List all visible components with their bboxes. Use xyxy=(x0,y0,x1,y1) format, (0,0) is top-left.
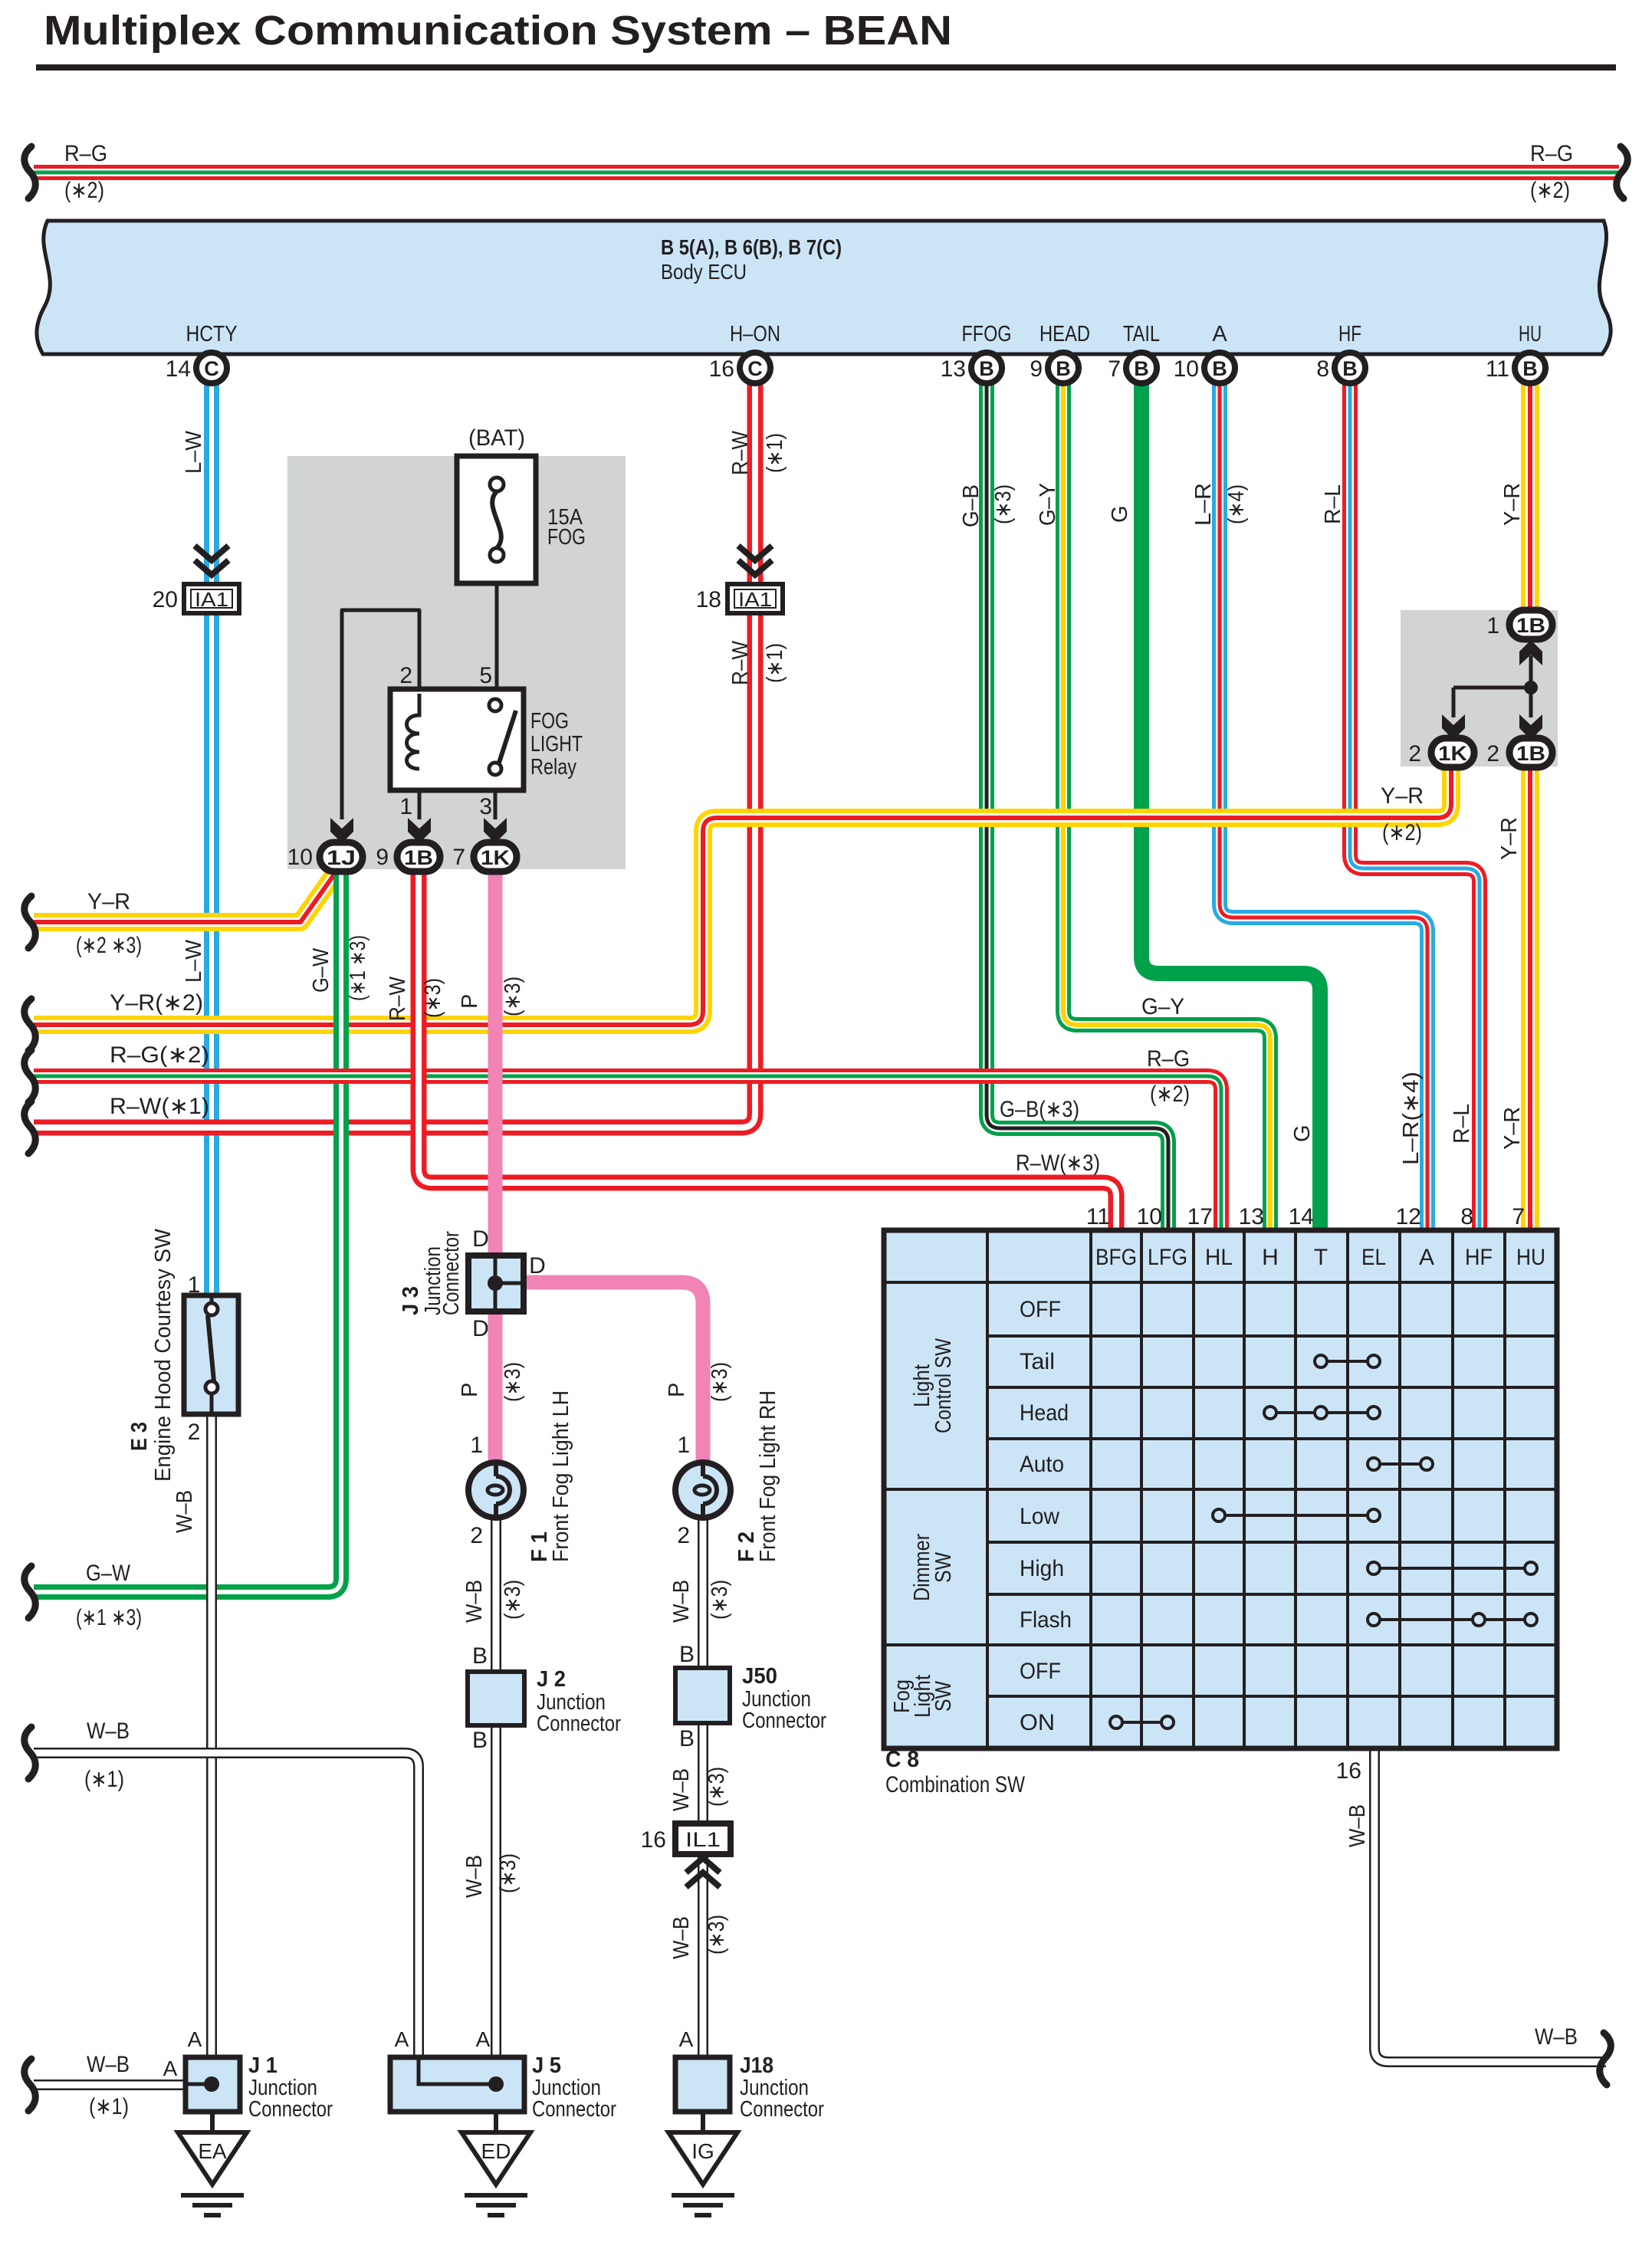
arrow into connector 1B pin 1 xyxy=(1519,640,1542,665)
svg-text:R–W(∗3): R–W(∗3) xyxy=(1016,1151,1100,1176)
svg-text:SW: SW xyxy=(931,1680,956,1712)
svg-text:3: 3 xyxy=(479,794,492,819)
svg-text:16: 16 xyxy=(1336,1758,1361,1784)
svg-text:A: A xyxy=(395,2027,409,2051)
svg-text:W–B: W–B xyxy=(1345,1804,1370,1847)
svg-text:H–ON: H–ON xyxy=(730,322,780,346)
svg-text:(∗1 ∗3): (∗1 ∗3) xyxy=(76,1605,142,1630)
ECU pin 8 HF xyxy=(1316,353,1365,383)
connector brace Y-R (*2 *3) xyxy=(25,896,36,948)
connector brace W-B (*1) lower xyxy=(25,2059,36,2111)
svg-text:Y–R: Y–R xyxy=(87,889,130,914)
svg-text:G: G xyxy=(1290,1124,1315,1142)
svg-text:16: 16 xyxy=(709,356,734,382)
svg-text:Multiplex Communication System: Multiplex Communication System – BEAN xyxy=(44,8,952,54)
svg-text:(∗3): (∗3) xyxy=(708,1580,732,1620)
wire Y-R from connector 1B pin 2 to C8 pin 7 xyxy=(1521,766,1539,1233)
svg-text:(∗2): (∗2) xyxy=(1150,1082,1190,1107)
svg-text:A: A xyxy=(476,2027,491,2051)
arrow into IA1 pin 20 xyxy=(195,546,228,575)
svg-text:(∗1): (∗1) xyxy=(89,2094,129,2119)
svg-text:J50: J50 xyxy=(742,1664,777,1689)
svg-text:R–W(∗1): R–W(∗1) xyxy=(110,1094,209,1119)
svg-text:(∗3): (∗3) xyxy=(704,1915,729,1955)
svg-text:HEAD: HEAD xyxy=(1039,322,1090,346)
connector IA1 pin 18 xyxy=(696,584,783,613)
svg-text:Flash: Flash xyxy=(1020,1607,1072,1633)
svg-text:Y–R(∗2): Y–R(∗2) xyxy=(110,990,203,1016)
wire W-B (*1) from left to J1 xyxy=(34,2080,212,2090)
svg-text:R–G(∗2): R–G(∗2) xyxy=(110,1042,209,1068)
svg-text:A: A xyxy=(188,2027,202,2051)
wire P from relay connector 1K through J3 to F1 xyxy=(488,868,503,1464)
svg-text:18: 18 xyxy=(696,587,721,612)
svg-text:OFF: OFF xyxy=(1020,1659,1061,1684)
svg-text:(∗4): (∗4) xyxy=(1224,484,1249,524)
svg-text:7: 7 xyxy=(1108,356,1121,382)
svg-text:B: B xyxy=(472,1643,488,1669)
ECU pin 9 HEAD xyxy=(1030,353,1079,383)
svg-text:Y–R: Y–R xyxy=(1500,1107,1525,1150)
svg-text:11: 11 xyxy=(1486,356,1509,382)
svg-text:10: 10 xyxy=(1174,356,1199,382)
svg-text:(∗3): (∗3) xyxy=(496,1853,521,1893)
connector brace W-B (*1) upper xyxy=(25,1727,36,1779)
svg-text:Tail: Tail xyxy=(1020,1349,1055,1374)
contact Tail row T-EL xyxy=(1315,1355,1380,1367)
svg-text:Connector: Connector xyxy=(742,1709,826,1733)
svg-text:H: H xyxy=(1262,1245,1279,1270)
connector brace W-B right xyxy=(1600,2033,1611,2085)
arrow into connector 1J xyxy=(330,818,353,843)
svg-text:Connector: Connector xyxy=(740,2097,824,2122)
svg-text:7: 7 xyxy=(1512,1204,1525,1229)
svg-text:Front Fog Light LH: Front Fog Light LH xyxy=(549,1390,573,1562)
wire relay pin 3 to connector 1K xyxy=(494,769,498,819)
svg-text:G–B: G–B xyxy=(959,484,984,527)
svg-text:J 3: J 3 xyxy=(399,1286,423,1315)
connector 1B/1K gray box xyxy=(1401,610,1558,766)
wire W-B (*1) from left to J5 xyxy=(34,1753,419,2062)
arrow into connector 1K xyxy=(484,818,507,843)
svg-text:Y–R: Y–R xyxy=(1497,817,1522,860)
svg-text:2: 2 xyxy=(188,1420,201,1445)
svg-text:C: C xyxy=(747,357,763,380)
svg-text:R–G: R–G xyxy=(64,141,107,166)
wire W-B (*3) from F1 through J2 to J5 xyxy=(491,1515,501,2062)
svg-text:Connector: Connector xyxy=(532,2097,616,2122)
svg-text:LFG: LFG xyxy=(1148,1245,1187,1270)
svg-text:Connector: Connector xyxy=(248,2097,333,2122)
svg-text:B: B xyxy=(679,1726,695,1751)
connector 1J pin 10 xyxy=(320,842,363,872)
svg-text:R–W: R–W xyxy=(728,430,753,475)
contact ON row BFG-LFG xyxy=(1110,1716,1174,1728)
svg-text:A: A xyxy=(1212,322,1227,346)
svg-text:12: 12 xyxy=(1396,1204,1421,1229)
svg-text:5: 5 xyxy=(479,663,492,688)
svg-text:Relay: Relay xyxy=(530,755,576,780)
svg-text:R–L: R–L xyxy=(1450,1104,1474,1144)
wire R-W (*1) from H-ON to left connector xyxy=(34,383,755,1128)
wire R-G (*2) from left to C8 pin 17 xyxy=(34,1076,1221,1233)
svg-text:A: A xyxy=(163,2057,178,2080)
connector IA1 pin 20 xyxy=(153,584,239,613)
svg-text:1: 1 xyxy=(470,1433,483,1458)
svg-text:(∗1): (∗1) xyxy=(84,1767,124,1792)
connector brace R-G left xyxy=(25,146,36,199)
svg-text:Body ECU: Body ECU xyxy=(661,260,747,284)
svg-text:EL: EL xyxy=(1361,1245,1386,1270)
switch table C8 Combination SW xyxy=(884,1230,1557,1748)
svg-text:(∗3): (∗3) xyxy=(501,1362,525,1402)
ECU pin 16 H-ON xyxy=(709,353,770,383)
contact Flash row EL-HF-HU xyxy=(1368,1613,1537,1626)
svg-text:G: G xyxy=(1108,505,1132,523)
ECU pin 14 HCTY xyxy=(166,353,227,383)
svg-text:(∗2): (∗2) xyxy=(1382,820,1422,845)
svg-text:B 5(A), B 6(B), B 7(C): B 5(A), B 6(B), B 7(C) xyxy=(661,235,842,259)
junction connector J1 xyxy=(186,2057,240,2112)
svg-text:2: 2 xyxy=(470,1523,483,1548)
wire R-W (*3) from relay connector 1B to C8 pin 11 xyxy=(419,868,1116,1233)
svg-text:A: A xyxy=(679,2027,694,2051)
svg-text:IG: IG xyxy=(691,2139,714,2163)
ground IG xyxy=(668,2112,737,2215)
svg-text:Connector: Connector xyxy=(537,1712,621,1736)
arrow into connector 1B xyxy=(408,818,431,843)
svg-text:Auto: Auto xyxy=(1020,1452,1064,1477)
svg-text:W–B: W–B xyxy=(172,1490,197,1533)
connector brace G-W (*1 *3) xyxy=(25,1566,36,1618)
svg-text:(∗3): (∗3) xyxy=(421,978,445,1018)
svg-text:W–B: W–B xyxy=(87,2052,130,2077)
svg-text:(∗3): (∗3) xyxy=(991,484,1016,524)
svg-text:P: P xyxy=(458,994,482,1009)
wire fuse to relay pin 5 xyxy=(495,561,499,705)
svg-text:W–B: W–B xyxy=(669,1916,694,1959)
svg-text:(∗3): (∗3) xyxy=(708,1362,732,1402)
svg-text:(∗2): (∗2) xyxy=(1530,178,1570,203)
contact Low row HL-EL xyxy=(1213,1509,1380,1521)
svg-text:C 8: C 8 xyxy=(885,1747,919,1772)
relay FOG LIGHT Relay xyxy=(390,689,524,790)
svg-text:Combination SW: Combination SW xyxy=(885,1772,1026,1797)
svg-text:B: B xyxy=(979,357,994,380)
svg-text:Control SW: Control SW xyxy=(931,1338,956,1433)
wire relay pin 2 to connector 1J xyxy=(342,610,419,819)
svg-text:20: 20 xyxy=(153,587,178,612)
wire Y-R from HU to connector 1B pin 1 xyxy=(1521,383,1539,613)
title rule xyxy=(36,64,1616,71)
wire R-G (*2) top bus xyxy=(34,165,1619,180)
connector brace Y-R (*2) xyxy=(25,999,36,1051)
connector brace R-W (*1) xyxy=(25,1101,36,1154)
svg-text:W–B: W–B xyxy=(87,1718,130,1744)
relay compartment gray box xyxy=(287,456,626,869)
svg-text:B: B xyxy=(1134,357,1149,380)
svg-text:IA1: IA1 xyxy=(738,588,772,611)
svg-text:HF: HF xyxy=(1338,322,1361,346)
ECU pin 7 TAIL xyxy=(1108,353,1157,383)
svg-text:SW: SW xyxy=(931,1551,956,1583)
svg-text:1B: 1B xyxy=(1516,742,1545,765)
svg-text:D: D xyxy=(472,1316,489,1341)
svg-text:L–W: L–W xyxy=(182,939,206,983)
svg-text:Y–R: Y–R xyxy=(1381,783,1424,809)
svg-text:R–W: R–W xyxy=(386,976,410,1021)
wire W-B from E3 to J1 xyxy=(206,1414,217,2062)
connector brace R-G (*2) xyxy=(25,1050,36,1102)
ECU pin 10 A xyxy=(1174,353,1235,383)
svg-text:(∗3): (∗3) xyxy=(501,977,525,1016)
svg-text:1J: 1J xyxy=(327,846,356,869)
svg-text:13: 13 xyxy=(1239,1204,1264,1229)
svg-text:(∗3): (∗3) xyxy=(501,1580,525,1620)
svg-text:1: 1 xyxy=(677,1433,690,1458)
svg-text:(∗1): (∗1) xyxy=(763,643,787,683)
svg-text:FFOG: FFOG xyxy=(962,322,1012,346)
svg-text:EA: EA xyxy=(198,2139,227,2163)
contact Auto row EL-A xyxy=(1368,1458,1433,1470)
junction connector J5 xyxy=(390,2057,524,2112)
svg-text:TAIL: TAIL xyxy=(1123,322,1160,346)
connector 1K pin 2 xyxy=(1431,738,1474,767)
wire relay pin 1 to connector 1B xyxy=(418,769,422,819)
svg-text:W–B: W–B xyxy=(462,1855,487,1898)
svg-text:P: P xyxy=(458,1383,482,1397)
svg-text:(∗2): (∗2) xyxy=(64,178,104,203)
svg-text:HU: HU xyxy=(1519,322,1542,346)
svg-text:ED: ED xyxy=(481,2139,511,2163)
ground EA xyxy=(178,2112,247,2215)
svg-text:16: 16 xyxy=(641,1827,666,1853)
svg-text:G–Y: G–Y xyxy=(1036,483,1060,526)
svg-text:R–W: R–W xyxy=(728,640,753,685)
contact Head row H-T-EL xyxy=(1264,1407,1380,1419)
connector brace R-G right xyxy=(1617,146,1628,199)
ECU pin 13 FFOG xyxy=(941,353,1002,383)
svg-text:1: 1 xyxy=(1486,613,1499,638)
svg-text:A: A xyxy=(1419,1245,1434,1270)
Body ECU box B5(A) B6(B) B7(C) xyxy=(37,221,1611,354)
svg-text:W–B: W–B xyxy=(669,1768,694,1811)
svg-text:B: B xyxy=(472,1728,488,1753)
svg-text:B: B xyxy=(1212,357,1227,380)
svg-text:OFF: OFF xyxy=(1020,1297,1061,1322)
arrow into connector 1B pin 2 xyxy=(1519,714,1542,740)
svg-text:9: 9 xyxy=(1030,356,1043,382)
svg-text:2: 2 xyxy=(1486,741,1499,766)
junction connector J18 xyxy=(675,2057,730,2112)
arrow into IA1 pin 18 xyxy=(738,546,772,575)
svg-text:D: D xyxy=(472,1226,489,1252)
connector 1B pin 2 xyxy=(1509,738,1552,767)
contact High row EL-HU xyxy=(1368,1562,1537,1574)
svg-text:HCTY: HCTY xyxy=(186,322,238,346)
svg-text:W–B: W–B xyxy=(1535,2024,1578,2050)
wire W-B from C8 pin 16 to right connector xyxy=(1374,1748,1606,2062)
svg-text:1K: 1K xyxy=(1438,742,1468,765)
svg-text:1: 1 xyxy=(399,794,412,819)
svg-text:Low: Low xyxy=(1020,1504,1059,1529)
svg-text:R–G: R–G xyxy=(1147,1046,1190,1072)
svg-text:9: 9 xyxy=(376,845,389,870)
svg-text:B: B xyxy=(1522,357,1538,380)
fuse 15A FOG xyxy=(457,456,536,583)
svg-text:FOG: FOG xyxy=(547,525,586,550)
svg-text:ON: ON xyxy=(1020,1710,1055,1735)
wire L-W from HCTY to E3 xyxy=(204,383,219,1295)
svg-text:W–B: W–B xyxy=(462,1580,487,1623)
svg-text:2: 2 xyxy=(1408,741,1421,766)
svg-text:J 1: J 1 xyxy=(248,2053,278,2078)
svg-text:B: B xyxy=(679,1642,695,1667)
svg-text:13: 13 xyxy=(941,356,966,382)
svg-text:2: 2 xyxy=(399,663,412,688)
wire G-Y from HEAD to C8 pin 13 xyxy=(1063,383,1270,1233)
connector 1B pin 9 xyxy=(397,842,440,872)
svg-text:J18: J18 xyxy=(740,2053,773,2078)
svg-text:8: 8 xyxy=(1460,1204,1473,1229)
arrow into connector 1K pin 2 xyxy=(1442,714,1465,740)
svg-text:R–L: R–L xyxy=(1321,484,1345,524)
svg-text:2: 2 xyxy=(677,1523,690,1548)
svg-text:J 2: J 2 xyxy=(537,1667,566,1692)
svg-text:(∗1): (∗1) xyxy=(763,433,787,473)
lamp F2 Front Fog Light RH xyxy=(675,1462,731,1518)
svg-text:B: B xyxy=(1342,357,1358,380)
lamp F1 Front Fog Light LH xyxy=(468,1462,524,1518)
svg-text:L–R(∗4): L–R(∗4) xyxy=(1399,1072,1424,1165)
svg-text:E 3: E 3 xyxy=(127,1422,152,1451)
svg-text:Y–R: Y–R xyxy=(1500,483,1525,526)
svg-text:Connector: Connector xyxy=(439,1231,464,1315)
svg-text:(∗2 ∗3): (∗2 ∗3) xyxy=(76,933,142,958)
junction connector J50 xyxy=(675,1668,730,1723)
svg-text:Front Fog Light RH: Front Fog Light RH xyxy=(756,1390,780,1562)
wire P from J3 to F2 xyxy=(495,1282,703,1464)
svg-text:10: 10 xyxy=(287,845,313,870)
wire R-L from HF to C8 pin 8 xyxy=(1350,383,1480,1233)
wire Y-R (*2 *3) diagonal from relay connector 1J xyxy=(34,862,336,922)
svg-text:10: 10 xyxy=(1137,1204,1162,1229)
svg-text:1B: 1B xyxy=(1516,614,1545,637)
wire Y-R (*2) from left to connector 1K pin 2 xyxy=(34,766,1451,1025)
svg-text:11: 11 xyxy=(1086,1204,1110,1229)
svg-text:IL1: IL1 xyxy=(685,1828,721,1851)
svg-text:B: B xyxy=(1056,357,1071,380)
arrow out of IL1 pin 16 xyxy=(686,1858,720,1887)
connector 1K pin 7 xyxy=(474,842,517,872)
svg-text:P: P xyxy=(665,1383,689,1397)
svg-text:IA1: IA1 xyxy=(195,588,228,611)
wire G-W (*1 *3) from relay connector 1J to left xyxy=(34,862,341,1592)
svg-text:HF: HF xyxy=(1465,1245,1493,1270)
svg-text:R–G: R–G xyxy=(1530,141,1573,166)
connector 1B pin 1 xyxy=(1509,610,1552,639)
connector IL1 pin 16 xyxy=(641,1823,731,1854)
svg-text:High: High xyxy=(1020,1556,1064,1581)
ECU pin 11 HU xyxy=(1486,353,1545,383)
svg-text:HL: HL xyxy=(1205,1245,1233,1270)
svg-text:FOG: FOG xyxy=(530,709,569,734)
wire links inside 1B/1K gray box xyxy=(1453,655,1538,717)
svg-text:D: D xyxy=(529,1253,546,1279)
svg-text:1B: 1B xyxy=(404,846,433,869)
svg-text:14: 14 xyxy=(1289,1204,1314,1229)
svg-text:L–W: L–W xyxy=(182,430,206,474)
ground ED xyxy=(461,2112,530,2215)
svg-text:8: 8 xyxy=(1316,356,1329,382)
wire L-R (*4) from A to C8 pin 12 xyxy=(1220,383,1427,1233)
svg-text:G–B(∗3): G–B(∗3) xyxy=(1000,1097,1079,1122)
svg-text:J 5: J 5 xyxy=(532,2053,561,2078)
svg-text:G–Y: G–Y xyxy=(1141,994,1184,1019)
svg-text:Engine Hood Courtesy SW: Engine Hood Courtesy SW xyxy=(151,1228,176,1482)
svg-text:7: 7 xyxy=(452,845,465,870)
wire G-B from FFOG to C8 pin 10 xyxy=(987,383,1168,1233)
svg-text:(∗1 ∗3): (∗1 ∗3) xyxy=(346,935,370,1001)
svg-text:C: C xyxy=(204,357,219,380)
junction connector J3 xyxy=(468,1256,524,1311)
svg-text:W–B: W–B xyxy=(669,1580,694,1623)
svg-text:14: 14 xyxy=(166,356,191,382)
svg-text:HU: HU xyxy=(1516,1245,1545,1270)
svg-text:(∗3): (∗3) xyxy=(704,1767,729,1807)
svg-text:17: 17 xyxy=(1187,1204,1213,1229)
svg-text:1: 1 xyxy=(188,1272,201,1298)
svg-text:G–W: G–W xyxy=(86,1561,131,1586)
svg-text:Head: Head xyxy=(1020,1400,1069,1426)
svg-text:G–W: G–W xyxy=(309,947,333,993)
wire W-B (*3) from F2 through J50 and J18 xyxy=(698,1515,708,2108)
svg-text:BFG: BFG xyxy=(1095,1245,1137,1270)
svg-text:1K: 1K xyxy=(481,846,511,869)
svg-text:LIGHT: LIGHT xyxy=(530,732,583,757)
svg-text:(BAT): (BAT) xyxy=(468,425,525,451)
svg-text:T: T xyxy=(1314,1245,1328,1270)
switch E3 Engine Hood Courtesy SW xyxy=(184,1295,238,1414)
svg-text:L–R: L–R xyxy=(1191,483,1216,526)
junction connector J2 xyxy=(468,1672,524,1725)
wire G from TAIL to C8 pin 14 xyxy=(1141,383,1320,1233)
